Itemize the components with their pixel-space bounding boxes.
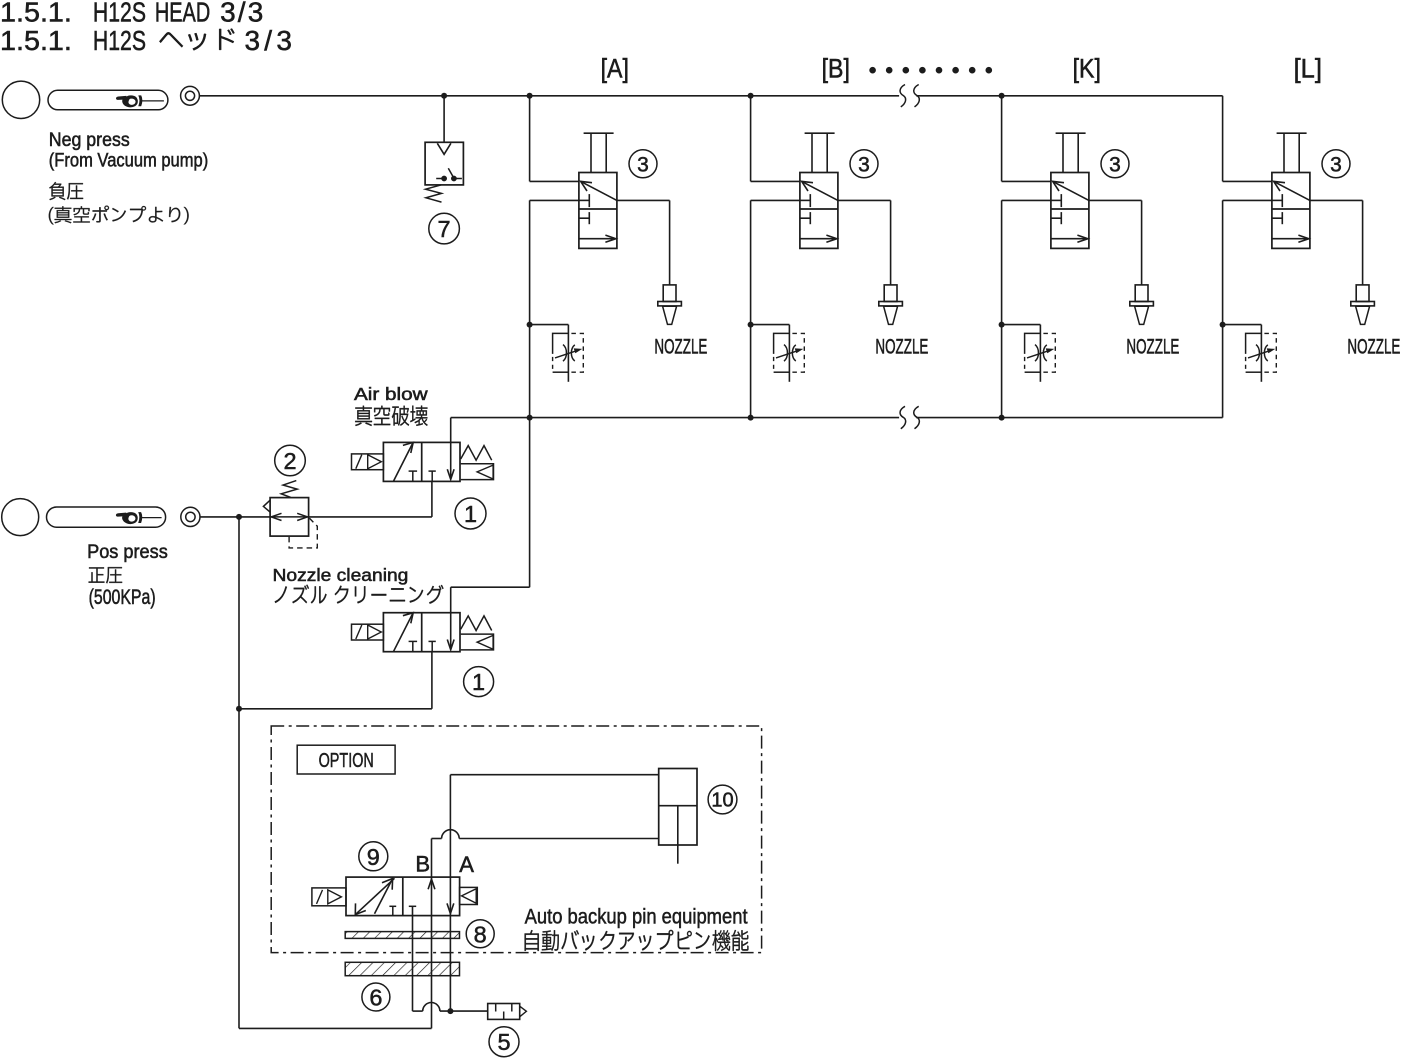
svg-text:B: B	[415, 851, 430, 876]
station B circle 3	[850, 150, 878, 178]
svg-text:(500KPa): (500KPa)	[89, 586, 156, 609]
station L nozzle line	[1310, 199, 1363, 201]
air blow valve bottom port	[431, 481, 433, 517]
wire to valve 9 bottom	[239, 1027, 432, 1029]
station K nozzle line	[1089, 199, 1142, 201]
pos press main wire	[200, 516, 270, 518]
(真空ポンプより)	[49, 206, 189, 225]
svg-text:8: 8	[474, 921, 487, 947]
regulator 2	[270, 498, 309, 536]
station L throttle branch dot	[1220, 322, 1226, 328]
title line 1	[0, 0, 292, 56]
svg-text:(From Vacuum pump): (From Vacuum pump)	[49, 150, 208, 172]
station B speed controller	[788, 325, 790, 382]
svg-text:3/3: 3/3	[245, 25, 292, 56]
station B nozzle	[890, 200, 892, 285]
svg-text:A: A	[459, 852, 474, 877]
valve 9 A flow line down arrow	[449, 877, 451, 916]
station B bus dot	[748, 415, 754, 421]
station A feed wire from top bus	[529, 96, 531, 182]
station A blow line	[530, 199, 579, 201]
svg-text:[L]: [L]	[1294, 54, 1322, 84]
vacuum switch 7	[425, 142, 463, 185]
svg-text:2: 2	[283, 448, 296, 474]
stadium outline	[47, 507, 166, 527]
station A speed controller	[567, 325, 569, 382]
junction dots on top bus	[441, 93, 447, 99]
cylinder 10	[659, 769, 697, 846]
svg-text:3/3: 3/3	[220, 0, 263, 28]
OPTION dash-dot border	[271, 726, 761, 953]
station K circle 3	[1101, 150, 1129, 178]
svg-text:1.5.1.: 1.5.1.	[0, 25, 72, 56]
svg-text:Nozzle cleaning: Nozzle cleaning	[273, 565, 409, 585]
svg-text:NOZZLE: NOZZLE	[1347, 335, 1400, 359]
svg-text:1: 1	[472, 669, 485, 695]
Pos press labels	[87, 541, 168, 609]
station K feed wire from top bus	[1001, 96, 1003, 182]
Neg press labels	[49, 129, 208, 172]
pos press vertical wire	[238, 517, 240, 1029]
vacuum switch 7 wire	[443, 96, 445, 143]
svg-text:1.5.1.: 1.5.1.	[0, 0, 72, 28]
port circle	[2, 81, 39, 118]
ノズル クリーニング	[275, 585, 444, 604]
station L nozzle	[1362, 200, 1364, 285]
circle 7	[429, 213, 460, 244]
pointing-hand icon	[116, 95, 163, 107]
svg-text:HEAD: HEAD	[155, 0, 210, 28]
svg-text:3: 3	[637, 153, 649, 176]
svg-text:3: 3	[1109, 153, 1121, 176]
pointing-hand icon	[116, 512, 161, 524]
svg-text:Air blow: Air blow	[354, 384, 428, 404]
Pos press double circle	[181, 507, 200, 526]
station A nozzle line	[617, 199, 670, 201]
svg-text:9: 9	[367, 844, 380, 870]
circle 10	[708, 785, 737, 814]
自動バックアップピン機能	[525, 930, 749, 951]
nozzle cleaning feed from bus	[529, 418, 531, 588]
nozzle cleaning valve 1	[383, 613, 460, 652]
silencer 5	[488, 1004, 520, 1020]
負圧	[49, 182, 83, 200]
svg-text:3: 3	[858, 153, 870, 176]
svg-text:NOZZLE: NOZZLE	[654, 335, 707, 359]
svg-text:H12S: H12S	[93, 25, 146, 56]
valve 9 B flow line up arrow	[431, 877, 433, 916]
station K bus dot	[999, 415, 1005, 421]
pipe B wire with hop	[431, 839, 433, 878]
svg-text:[K]: [K]	[1073, 54, 1101, 84]
svg-text:[B]: [B]	[822, 54, 850, 84]
svg-text:NOZZLE: NOZZLE	[1126, 335, 1179, 359]
valve 9 solenoid	[312, 888, 346, 906]
station L valve 3	[1272, 173, 1310, 249]
A line down to junction	[449, 916, 451, 1012]
正圧	[89, 567, 123, 583]
svg-text:3: 3	[1330, 153, 1342, 176]
air blow valve 1	[383, 442, 460, 481]
svg-text:Pos press: Pos press	[87, 541, 168, 563]
svg-text:7: 7	[438, 216, 451, 242]
exhaust line w/ hop to silencer	[413, 1010, 423, 1012]
station B nozzle line	[838, 199, 891, 201]
Neg press double circle	[181, 86, 200, 105]
station K blow line	[1002, 199, 1051, 201]
svg-text:Neg press: Neg press	[49, 129, 130, 151]
OPTION label box	[297, 745, 395, 774]
circle 6	[362, 983, 390, 1011]
station B throttle branch dot	[748, 322, 754, 328]
Nozzle cleaning labels	[273, 565, 409, 585]
valve 9 left cell arrows	[356, 878, 394, 913]
bus break squiggles bottom	[900, 406, 906, 428]
station K valve 3	[1051, 173, 1089, 249]
station L circle 3	[1322, 150, 1350, 178]
port labels B A	[415, 851, 474, 877]
air blow valve feed from bus	[450, 418, 452, 443]
svg-text:NOZZLE: NOZZLE	[875, 335, 928, 359]
svg-text:OPTION: OPTION	[319, 750, 374, 772]
valve 9 body	[346, 877, 460, 916]
circle 2	[275, 445, 306, 476]
circle 9	[359, 842, 388, 871]
hatched bar 6	[345, 962, 459, 975]
svg-text:[A]: [A]	[601, 54, 629, 84]
station L feed wire from top bus	[1222, 96, 1224, 182]
svg-text:H12S: H12S	[93, 0, 146, 28]
station labels [A][B][K][L]	[601, 54, 1322, 84]
hatched bar 8	[345, 932, 459, 939]
ellipsis dots between B and K	[869, 67, 876, 74]
station K throttle branch dot	[999, 322, 1005, 328]
station A nozzle	[669, 200, 671, 285]
station B valve 3	[800, 173, 838, 249]
bus break squiggles top	[900, 85, 906, 107]
circle 8	[466, 920, 494, 948]
station A throttle branch dot	[527, 322, 533, 328]
station B feed wire from top bus	[750, 96, 752, 182]
stadium outline	[48, 90, 168, 110]
station K speed controller	[1039, 325, 1041, 382]
circle 1 air blow	[455, 498, 486, 529]
station A valve 3	[579, 173, 617, 249]
station B blow line	[751, 199, 800, 201]
valve 9 right return box	[460, 887, 478, 904]
svg-text:1: 1	[464, 501, 477, 527]
station L speed controller	[1260, 325, 1262, 382]
svg-text:6: 6	[369, 984, 382, 1010]
valve 9 right cell T with long stem	[409, 905, 416, 907]
station L blow line	[1223, 199, 1272, 201]
pipe A wire	[449, 775, 451, 877]
station A circle 3	[629, 150, 657, 178]
valve 9 left cell T	[389, 905, 396, 907]
bottom air-blow bus wire	[451, 417, 899, 419]
station A bus dot	[527, 415, 533, 421]
svg-text:10: 10	[711, 790, 733, 812]
真空破壊	[355, 406, 427, 426]
top vacuum bus wire	[199, 95, 899, 97]
Air blow labels	[354, 384, 428, 404]
junction dot pos vertical	[236, 514, 242, 520]
circle 1 nozzle cleaning	[464, 667, 494, 697]
title line 2 katakana ヘッド	[159, 29, 234, 51]
circle 5	[489, 1027, 519, 1057]
svg-text:5: 5	[497, 1029, 510, 1055]
nozzle cleaning bottom port wire	[431, 652, 433, 709]
svg-text:Auto backup pin equipment: Auto backup pin equipment	[525, 906, 748, 929]
port circle	[2, 499, 39, 536]
station K nozzle	[1141, 200, 1143, 285]
